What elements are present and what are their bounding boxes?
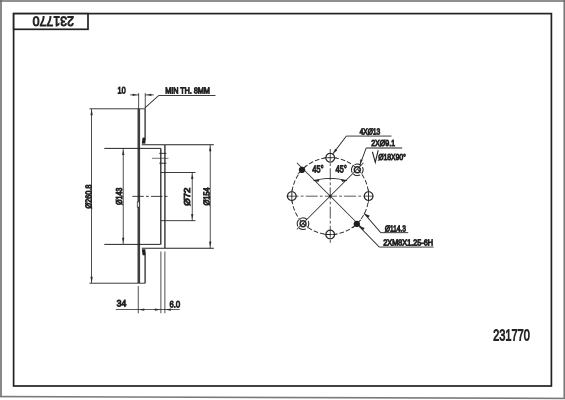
svg-text:45°: 45° <box>335 164 347 175</box>
label MIN TH. 8MM underline <box>159 94 216 96</box>
svg-text:Ø18X90°: Ø18X90° <box>378 153 406 163</box>
M8 tapped hole SE (filled) <box>353 220 361 228</box>
bolt hole lower edge in wall <box>159 162 166 164</box>
dimension Ø154 : arrow down <box>209 242 211 249</box>
fillet blob upper (hat meets disc) <box>142 138 146 144</box>
dimension 34 / 6.0 : extension disc left face <box>137 286 139 313</box>
arrow at 138.2 pointing left <box>138 308 144 310</box>
dimension Ø143 : arrow up <box>122 149 124 156</box>
svg-text:34: 34 <box>117 298 127 308</box>
dimension 10 : line left w/ arrow <box>130 94 139 96</box>
label 4XØ13 leader + arrow <box>333 136 347 154</box>
angle arc 45/45 with arrows <box>314 178 348 180</box>
dimension Ø260.8 : arrow up <box>90 109 92 116</box>
hat inner surface top (also Ø143 extension) <box>104 147 161 149</box>
hat outer surface bottom (also Ø154 extension) <box>142 247 214 249</box>
disc right face lower <box>144 252 146 283</box>
diagonal centre line 135deg (TL-BR) <box>297 163 364 230</box>
svg-text:231770: 231770 <box>33 13 74 29</box>
arrow at 160.9 pointing right <box>155 308 161 310</box>
svg-text:Ø143: Ø143 <box>114 187 124 205</box>
diagonal centre line 45deg (BL-TR) <box>297 163 364 230</box>
bolt hole centre line <box>152 157 169 159</box>
dimension Ø260.8 : arrow down <box>90 277 92 284</box>
outer page border top <box>0 0 565 2</box>
outer page border right <box>563 0 565 399</box>
centre square <box>329 195 332 198</box>
dimension Ø260.8 : extension bottom <box>90 282 146 284</box>
svg-text:2XØ9.1: 2XØ9.1 <box>371 138 395 148</box>
label 2XM8X1.25-6H underline <box>379 246 433 248</box>
mounting wall outer face <box>164 145 166 249</box>
dimension Ø72 : arrow down <box>191 214 193 221</box>
svg-text:45°: 45° <box>312 164 324 175</box>
disc left face (thick) <box>138 109 141 284</box>
svg-text:231770: 231770 <box>493 327 530 344</box>
dimension Ø143 : dimension line <box>122 149 124 245</box>
dimension Ø260.8 : dimension line <box>91 109 93 283</box>
label Ø114.3 leader + arrow <box>364 213 381 233</box>
dimension 10 : extension right <box>144 93 146 108</box>
centre bore bottom edge (also Ø72 extension) <box>161 220 196 222</box>
M8 tapped hole NW (filled) <box>298 166 306 174</box>
section centre line (dash-dot) <box>132 195 169 197</box>
title box top-left <box>14 14 88 30</box>
hat outer surface top (also Ø154 extension) <box>142 144 214 146</box>
svg-text:6.0: 6.0 <box>169 299 180 310</box>
dimension Ø154 : arrow up <box>209 145 211 152</box>
dimension Ø260.8 : extension top <box>90 108 146 110</box>
label 4XØ13 underline <box>346 135 391 137</box>
countersunk hole SW (Ø9.1/Ø18) <box>297 218 309 230</box>
dimension 34 / 6.0 : extension wall inner <box>160 252 162 314</box>
disc right face upper <box>144 109 146 141</box>
svg-text:Ø114.3: Ø114.3 <box>385 224 406 234</box>
horizontal centre line <box>287 195 374 197</box>
hat inner surface bottom (also Ø143 extension) <box>104 243 161 245</box>
bolt hole upper edge in wall <box>159 152 166 154</box>
dimension 10 : extension left <box>138 93 140 108</box>
bolt circle Ø114.3 dashed <box>292 158 369 235</box>
svg-text:2XM8X1.25-6H: 2XM8X1.25-6H <box>383 238 433 248</box>
dimension 34 / 6.0 : extension wall outer <box>164 252 166 314</box>
Ø13 hole N <box>326 153 335 162</box>
label 2XØ9.1 underline <box>366 147 402 149</box>
arrow at 164.9 pointing left <box>165 308 171 310</box>
label Ø114.3 underline <box>381 232 408 234</box>
mounting wall inner face <box>160 148 162 244</box>
dimension Ø143 : arrow down <box>122 238 124 245</box>
dimension Ø72 : dimension line <box>191 173 193 221</box>
Ø13 hole W <box>287 192 296 201</box>
label MIN TH. 8MM leader <box>145 95 159 108</box>
outer page border left <box>0 0 2 397</box>
dimension Ø154 : dimension line <box>209 145 211 248</box>
vertical centre line <box>329 149 331 243</box>
svg-text:Ø260.8: Ø260.8 <box>84 184 94 208</box>
dimension 10 : line right w/ arrow <box>145 94 154 96</box>
Ø13 hole E <box>364 192 373 201</box>
svg-text:MIN TH. 8MM: MIN TH. 8MM <box>165 86 210 95</box>
Ø13 hole S <box>326 230 335 239</box>
outer page border bottom <box>0 397 565 399</box>
label 2XØ9.1 leader + arrow <box>360 148 367 166</box>
countersink V symbol <box>372 150 378 162</box>
svg-text:Ø154: Ø154 <box>202 187 212 206</box>
svg-text:Ø72: Ø72 <box>182 188 191 206</box>
fillet blob lower <box>142 249 146 255</box>
label 2XM8X1.25-6H leader + arrow <box>359 226 380 247</box>
svg-text:10: 10 <box>118 85 127 96</box>
dimension line 34/6.0 <box>116 309 180 311</box>
svg-text:4XØ13: 4XØ13 <box>360 127 381 137</box>
dimension Ø72 : arrow up <box>191 173 193 180</box>
countersunk hole NE (Ø9.1/Ø18) <box>352 164 364 176</box>
centre bore top edge (also Ø72 extension) <box>161 171 196 173</box>
notch on left face below centre <box>137 202 139 207</box>
